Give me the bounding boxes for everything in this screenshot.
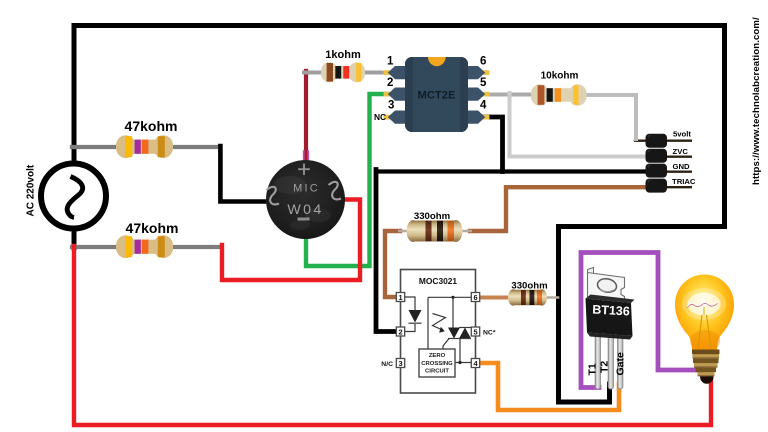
wire black stub below AC source [72, 227, 77, 248]
svg-text:4: 4 [480, 100, 487, 112]
svg-text:Gate: Gate [615, 352, 627, 376]
optocoupler U2 MOC3021 [381, 270, 496, 394]
svg-text:47kohm: 47kohm [126, 220, 179, 236]
svg-text:6: 6 [473, 293, 477, 302]
wire red R2 to bridge right [222, 200, 360, 281]
resistor R5 330ohm photo style [398, 220, 472, 242]
U2 internal circuit [405, 297, 472, 363]
svg-text:3: 3 [388, 100, 394, 112]
svg-text:GND: GND [673, 162, 691, 171]
svg-text:N/C: N/C [381, 361, 393, 368]
svg-text:T2: T2 [599, 361, 611, 373]
triac Q1 BT136 [586, 268, 635, 390]
resistor R4 10kohm [531, 84, 587, 105]
lamp LP1 bulb [675, 275, 734, 384]
svg-text:AC 220volt: AC 220volt [26, 164, 37, 216]
svg-text:BT136: BT136 [592, 303, 630, 319]
wire gray R3 leads [304, 71, 388, 75]
svg-text:5: 5 [473, 328, 477, 337]
wire green bridge minus to U1 pin2 [306, 94, 387, 266]
svg-text:330ohm: 330ohm [511, 281, 547, 292]
wire red AC bottom to lamp [74, 246, 711, 425]
wire orange U2 pin4 to gate [477, 363, 619, 410]
wire black R1 to bridge left [220, 146, 270, 202]
svg-text:ZVC: ZVC [673, 147, 689, 156]
header pin stubs left [635, 141, 648, 188]
wire brown R5 to TRIAC pin [470, 187, 646, 231]
wire gray R2 row [72, 245, 220, 249]
svg-text:5: 5 [480, 77, 487, 89]
svg-text:CIRCUIT: CIRCUIT [425, 368, 449, 374]
svg-text:5volt: 5volt [673, 130, 691, 139]
wire lightgray R4 to 5volt pin [584, 95, 636, 139]
svg-text:MCT2E: MCT2E [418, 90, 456, 102]
svg-text:1: 1 [387, 56, 394, 68]
svg-text:2: 2 [387, 77, 393, 89]
wire black down to U2 pin2 [376, 170, 399, 332]
svg-text:ZERO: ZERO [429, 353, 446, 359]
wire black U1 pin4 down [483, 117, 503, 172]
svg-text:330ohm: 330ohm [414, 211, 450, 222]
header pin labels [672, 130, 696, 187]
bridge rectifier BR1 MIC W04 [266, 160, 345, 239]
svg-text:NC*: NC* [483, 330, 496, 337]
resistor R2 47kohm [116, 235, 173, 258]
wire tan U2 pin6 to R6 [477, 296, 512, 300]
wire maroon bridge plus to R3 [304, 71, 308, 164]
svg-text:MOC3021: MOC3021 [419, 276, 458, 286]
lead silver R6 right [544, 296, 558, 299]
header J1 [646, 134, 693, 193]
svg-text:T1: T1 [587, 363, 599, 375]
U1 pin numbers [387, 56, 487, 112]
svg-text:CROSSING: CROSSING [421, 361, 453, 367]
svg-text:47kohm: 47kohm [125, 118, 178, 134]
resistor R6 330ohm photo style [508, 289, 547, 305]
svg-text:3: 3 [398, 359, 402, 368]
svg-text:6: 6 [480, 56, 486, 68]
wire gray U1 pin5 to R4 [483, 93, 533, 97]
svg-text:1kohm: 1kohm [325, 49, 361, 61]
svg-text:https://www.technolabcreation.: https://www.technolabcreation.com/ [751, 17, 762, 185]
svg-text:TRIAC: TRIAC [672, 177, 696, 186]
wire lightgray ZVC branch [510, 93, 647, 157]
svg-text:NC: NC [374, 112, 386, 122]
wire gray R1 row [72, 145, 220, 149]
sleeve magenta on maroon wire [303, 150, 309, 163]
wire purple T1 loop to lamp [581, 253, 700, 388]
optocoupler U1 MCT2E [384, 57, 490, 132]
resistor R3 1kohm [321, 62, 365, 82]
resistor R1 47kohm [116, 135, 173, 158]
Q1 leg labels [587, 352, 627, 376]
svg-text:10kohm: 10kohm [541, 71, 579, 82]
svg-text:2: 2 [398, 328, 402, 337]
AC source V1 [41, 164, 106, 229]
wire black GND row [376, 169, 646, 173]
svg-text:1: 1 [398, 293, 402, 302]
wire brown R5 to U2 pin1 [385, 231, 400, 297]
wire black mains: AC top to frame top, right side down, across to triac T2 [74, 26, 725, 403]
